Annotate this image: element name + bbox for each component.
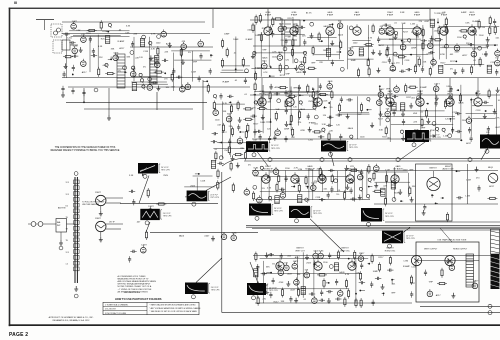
svg-text:33K: 33K (281, 301, 285, 303)
svg-text:20 V P-P: 20 V P-P (163, 213, 171, 215)
svg-text:* PARTS VALUES SHOWN IN SCHEMA: * PARTS VALUES SHOWN IN SCHEMATIC ARE LI… (150, 304, 197, 307)
svg-text:6CB6: 6CB6 (254, 168, 259, 170)
svg-text:.0047: .0047 (424, 21, 430, 23)
svg-text:A217: A217 (379, 44, 385, 47)
svg-text:VHF: VHF (429, 281, 434, 283)
svg-text:12AT7: 12AT7 (148, 205, 153, 208)
svg-text:6CB6: 6CB6 (319, 251, 324, 253)
svg-text:6AG5: 6AG5 (415, 11, 420, 14)
svg-text:7875 CPS: 7875 CPS (163, 216, 172, 218)
svg-text:33K: 33K (267, 101, 271, 103)
svg-text:IF AMP: IF AMP (469, 14, 476, 17)
svg-text:12AU7: 12AU7 (387, 11, 393, 14)
svg-text:12AT7: 12AT7 (95, 191, 102, 194)
svg-text:THE COOPERATION OF THE MANUFAC: THE COOPERATION OF THE MANUFACTURER OF T… (55, 146, 116, 149)
svg-text:6T8: 6T8 (386, 109, 389, 111)
svg-text:33K: 33K (223, 111, 227, 113)
svg-text:A217: A217 (82, 71, 88, 74)
svg-text:C118: C118 (86, 33, 92, 35)
svg-text:22K: 22K (134, 34, 138, 36)
svg-text:6T8: 6T8 (281, 190, 284, 192)
svg-text:C118: C118 (315, 197, 321, 199)
svg-text:470K: 470K (300, 130, 305, 132)
svg-text:7875 CPS: 7875 CPS (406, 238, 415, 240)
svg-text:6AU6: 6AU6 (300, 108, 306, 111)
svg-text:INDIANAPOLIS 6, INDIANA, U.S.A: INDIANAPOLIS 6, INDIANA, U.S.A. 1952 (53, 319, 91, 322)
svg-text:5%: 5% (188, 52, 191, 54)
svg-text:470K: 470K (440, 54, 445, 56)
svg-text:6T8: 6T8 (81, 34, 84, 36)
svg-text:2 B+ BOOST: 2 B+ BOOST (105, 309, 117, 311)
svg-text:250V: 250V (224, 150, 229, 152)
svg-text:PAGE 2: PAGE 2 (9, 332, 28, 338)
svg-text:4.7K: 4.7K (368, 37, 373, 39)
svg-text:5%: 5% (336, 194, 339, 196)
svg-text:VHF: VHF (421, 127, 426, 129)
svg-text:250V: 250V (163, 175, 168, 177)
svg-text:6AL5: 6AL5 (358, 171, 362, 174)
svg-text:C118: C118 (411, 266, 417, 268)
svg-text:3.3K: 3.3K (446, 86, 451, 88)
svg-text:6SN7GT: 6SN7GT (429, 168, 437, 170)
svg-text:.0047: .0047 (495, 127, 500, 129)
svg-text:C118: C118 (480, 27, 486, 29)
svg-text:SEE PAGE GUIDE: SEE PAGE GUIDE (124, 291, 141, 294)
svg-text:20 V P-P: 20 V P-P (210, 194, 218, 196)
svg-text:7875 CPS: 7875 CPS (269, 290, 278, 292)
svg-text:A217: A217 (466, 142, 472, 145)
svg-text:1.5: 1.5 (66, 263, 69, 265)
svg-text:12AT7: 12AT7 (401, 41, 406, 44)
svg-text:IF AMP: IF AMP (441, 14, 448, 17)
svg-text:5%: 5% (450, 69, 453, 71)
svg-text:VHF: VHF (193, 62, 198, 64)
svg-text:6AL5: 6AL5 (131, 68, 135, 71)
svg-text:470K: 470K (279, 282, 284, 284)
svg-text:VHF: VHF (276, 109, 281, 111)
svg-text:RATIO DET: RATIO DET (347, 167, 358, 170)
svg-text:USE THIS DIAGRAM: USE THIS DIAGRAM (82, 203, 100, 206)
svg-text:AN TEN: AN TEN (58, 207, 66, 210)
svg-text:20 V P-P: 20 V P-P (385, 213, 393, 215)
svg-text:SOUND IF: SOUND IF (263, 168, 273, 170)
svg-text:6AU6: 6AU6 (296, 71, 302, 74)
svg-text:6AU6: 6AU6 (328, 11, 333, 14)
svg-text:6AU6: 6AU6 (349, 46, 354, 49)
svg-text:A PRODUCT OF HOWARD W. SAMS &: A PRODUCT OF HOWARD W. SAMS & CO., INC. (49, 316, 94, 319)
svg-text:6T8: 6T8 (380, 26, 383, 28)
svg-text:6AL5: 6AL5 (355, 11, 359, 14)
svg-text:A217: A217 (275, 86, 281, 89)
svg-text:12AT7: 12AT7 (379, 88, 384, 91)
svg-text:3.3K: 3.3K (126, 25, 131, 27)
svg-text:20 V P-P: 20 V P-P (274, 208, 282, 210)
svg-text:10MF: 10MF (351, 60, 357, 62)
svg-text:12AT7: 12AT7 (293, 260, 298, 263)
svg-text:4.7K: 4.7K (151, 34, 156, 36)
svg-text:4.7K: 4.7K (272, 52, 277, 54)
svg-text:C118: C118 (143, 51, 149, 53)
svg-text:250V: 250V (306, 263, 311, 265)
svg-text:HORIZ OSC: HORIZ OSC (385, 250, 396, 252)
svg-text:7875 CPS: 7875 CPS (432, 137, 441, 139)
svg-text:IF AMP: IF AMP (387, 14, 394, 17)
svg-text:12.5: 12.5 (66, 182, 70, 184)
svg-text:6AL5: 6AL5 (300, 61, 304, 64)
svg-text:5%: 5% (143, 66, 146, 68)
svg-text:IF AMP: IF AMP (403, 265, 410, 268)
svg-text:6AL5: 6AL5 (262, 60, 266, 63)
svg-text:12AT7: 12AT7 (359, 252, 364, 255)
svg-text:250V: 250V (190, 186, 195, 188)
svg-text:VERT OSC: VERT OSC (340, 250, 350, 252)
svg-text:SOUND IF: SOUND IF (305, 168, 315, 170)
svg-text:1 TUNER SUB & CHANNEL: 1 TUNER SUB & CHANNEL (105, 304, 128, 307)
svg-text:VHF: VHF (409, 169, 414, 171)
svg-text:A217: A217 (436, 294, 442, 297)
svg-text:R217: R217 (450, 61, 456, 63)
svg-text:7875 CPS: 7875 CPS (274, 211, 283, 213)
svg-text:22K: 22K (413, 121, 417, 123)
svg-text:VHF: VHF (402, 23, 407, 25)
svg-text:1.5M: 1.5M (403, 260, 408, 262)
svg-text:IF AMP: IF AMP (354, 14, 361, 17)
svg-text:6T8: 6T8 (284, 262, 287, 264)
svg-text:.0047: .0047 (290, 289, 296, 291)
svg-text:.0047: .0047 (410, 283, 416, 285)
svg-text:22K: 22K (165, 52, 169, 54)
svg-text:3.3K: 3.3K (465, 23, 470, 25)
svg-text:22K: 22K (329, 131, 333, 133)
svg-text:6T8: 6T8 (495, 58, 498, 60)
svg-text:6AL5: 6AL5 (428, 39, 432, 42)
svg-text:33K: 33K (297, 274, 301, 276)
svg-text:1.5M: 1.5M (191, 71, 196, 73)
svg-text:7875 CPS: 7875 CPS (313, 213, 322, 215)
svg-text:A217: A217 (462, 54, 468, 57)
svg-text:1ST IF: 1ST IF (109, 221, 115, 223)
svg-text:7875 CPS: 7875 CPS (210, 197, 219, 199)
svg-text:20 V P-P: 20 V P-P (313, 210, 321, 212)
svg-text:C118: C118 (452, 112, 458, 114)
svg-text:R217: R217 (222, 132, 228, 134)
svg-text:3.3K: 3.3K (322, 124, 327, 126)
svg-text:6BQ6: 6BQ6 (488, 167, 493, 169)
svg-text:20 V P-P: 20 V P-P (269, 288, 277, 290)
svg-text:3 PHOTOFACT VOLUME: 3 PHOTOFACT VOLUME (105, 312, 127, 315)
svg-text:PIX IF: PIX IF (387, 94, 393, 96)
svg-text:VERT OUTPUT: VERT OUTPUT (424, 248, 438, 250)
svg-text:VHF: VHF (293, 87, 298, 89)
svg-text:4.7K: 4.7K (495, 118, 500, 120)
svg-text:22K: 22K (319, 62, 323, 64)
svg-text:4.7K: 4.7K (267, 188, 272, 190)
svg-text:IF AMP: IF AMP (291, 14, 298, 17)
svg-text:12.5: 12.5 (66, 194, 70, 196)
svg-text:20 V P-P: 20 V P-P (432, 135, 440, 137)
svg-text:22K: 22K (99, 57, 103, 59)
svg-text:A217: A217 (489, 185, 495, 188)
svg-text:4.7K: 4.7K (394, 177, 399, 179)
svg-text:6AL5: 6AL5 (314, 250, 318, 253)
svg-text:4.7K: 4.7K (345, 274, 350, 276)
svg-text:R217: R217 (378, 257, 384, 259)
svg-text:10MF: 10MF (224, 34, 230, 36)
svg-text:6T8: 6T8 (450, 262, 453, 264)
svg-text:12AT7: 12AT7 (95, 217, 102, 220)
svg-text:6T8: 6T8 (338, 20, 341, 22)
svg-text:10MF: 10MF (233, 39, 239, 41)
svg-text:12AT7: 12AT7 (473, 279, 478, 282)
svg-text:PIX IF: PIX IF (315, 94, 321, 96)
svg-text:5%: 5% (118, 71, 121, 73)
svg-text:R217: R217 (274, 301, 280, 303)
svg-text:5%: 5% (262, 188, 265, 190)
svg-text:C118: C118 (323, 101, 329, 103)
svg-text:AND VOLTAGE MEASUREMENTS TAKE: AND VOLTAGE MEASUREMENTS TAKEN (118, 280, 157, 283)
svg-text:6CB6: 6CB6 (73, 45, 78, 47)
svg-text:4.7K: 4.7K (151, 48, 156, 50)
svg-text:5%: 5% (272, 264, 275, 266)
svg-text:4.7K: 4.7K (223, 103, 228, 105)
svg-text:.0047: .0047 (454, 52, 460, 54)
svg-text:IF AMP: IF AMP (255, 66, 262, 69)
svg-text:A CONDENSER 6CR 4 TUBES: A CONDENSER 6CR 4 TUBES (118, 275, 147, 278)
svg-text:8.2: 8.2 (66, 205, 69, 207)
svg-text:C118: C118 (405, 60, 411, 62)
svg-text:HORIZ OUTPUT: HORIZ OUTPUT (453, 248, 468, 250)
svg-text:12AT7: 12AT7 (141, 244, 146, 247)
svg-text:6AU6: 6AU6 (458, 101, 464, 104)
svg-text:22K: 22K (302, 36, 306, 38)
svg-text:IF AMP: IF AMP (222, 81, 229, 84)
svg-text:20 V P-P: 20 V P-P (349, 145, 357, 147)
svg-text:6T8: 6T8 (227, 114, 230, 116)
svg-text:IF AMP: IF AMP (327, 14, 334, 17)
svg-text:PIX IF: PIX IF (475, 94, 481, 96)
svg-text:33K: 33K (266, 266, 270, 268)
svg-text:250V: 250V (403, 170, 408, 172)
svg-text:1.5M: 1.5M (466, 180, 471, 182)
svg-text:33K: 33K (111, 48, 115, 50)
svg-text:A217: A217 (295, 256, 301, 259)
svg-text:6T8: 6T8 (486, 132, 489, 134)
svg-text:12AU7: 12AU7 (265, 165, 272, 168)
svg-text:.0047: .0047 (287, 274, 293, 276)
svg-text:6AU6: 6AU6 (278, 51, 283, 54)
svg-text:10MF: 10MF (411, 47, 417, 49)
svg-text:IF AMP: IF AMP (414, 14, 421, 17)
svg-text:6AL5: 6AL5 (391, 62, 395, 65)
svg-text:12AT7: 12AT7 (434, 82, 439, 85)
svg-text:1.5M: 1.5M (298, 169, 303, 171)
svg-text:6AU6: 6AU6 (262, 56, 268, 59)
svg-text:5%: 5% (330, 107, 333, 109)
svg-text:10MF: 10MF (284, 128, 290, 130)
svg-text:PIX IF: PIX IF (447, 94, 453, 96)
svg-text:22K: 22K (240, 148, 244, 150)
svg-text:3.3K: 3.3K (125, 32, 130, 34)
svg-text:AT 4%: AT 4% (306, 12, 312, 15)
svg-text:C118: C118 (476, 110, 482, 112)
svg-text:NOTES TURNED ON ANY OUT OF A: NOTES TURNED ON ANY OUT OF A (118, 285, 152, 288)
svg-text:VHF: VHF (262, 50, 267, 52)
svg-text:7875 CPS: 7875 CPS (271, 148, 280, 150)
svg-text:6AU6: 6AU6 (307, 165, 313, 168)
svg-text:VHF: VHF (391, 292, 396, 294)
svg-text:R217: R217 (288, 18, 294, 20)
svg-text:R217: R217 (403, 31, 409, 33)
svg-text:7875 CPS: 7875 CPS (211, 289, 220, 291)
svg-text:IF AMP: IF AMP (118, 40, 125, 43)
svg-text:6AU6: 6AU6 (348, 127, 354, 130)
svg-text:HOW TO USE PHOTOFACT FOLDERS: HOW TO USE PHOTOFACT FOLDERS (115, 297, 162, 301)
svg-text:.0047: .0047 (204, 235, 210, 237)
svg-text:A217: A217 (119, 47, 125, 50)
svg-text:6CB6: 6CB6 (232, 232, 237, 234)
svg-text:ION TRAP DEFLECTION YOKE: ION TRAP DEFLECTION YOKE (438, 239, 467, 242)
svg-text:5%: 5% (248, 164, 251, 166)
svg-text:VHF: VHF (286, 73, 291, 75)
svg-text:6CB6: 6CB6 (472, 49, 477, 51)
svg-text:PIX IF: PIX IF (417, 94, 423, 96)
svg-text:1.5M: 1.5M (443, 136, 448, 138)
svg-text:AUDIO OUT: AUDIO OUT (442, 167, 454, 170)
svg-text:VHF: VHF (311, 62, 316, 64)
svg-text:12AT7: 12AT7 (311, 181, 316, 184)
svg-text:PIX IF: PIX IF (287, 94, 293, 96)
svg-text:3.3K: 3.3K (129, 175, 134, 177)
svg-text:VERT OUT: VERT OUT (295, 250, 305, 252)
svg-text:33K: 33K (126, 57, 130, 59)
svg-text:C118: C118 (382, 62, 388, 64)
svg-text:20 V P-P: 20 V P-P (406, 236, 414, 238)
svg-text:* SEE INDEX OF SET NO. FOR LIS: * SEE INDEX OF SET NO. FOR LISTING OF EA… (150, 310, 198, 313)
svg-text:22K: 22K (423, 62, 427, 64)
svg-text:12.5: 12.5 (66, 252, 70, 254)
svg-text:.0047: .0047 (426, 54, 432, 56)
svg-text:RECEIVER MAKES IT POSSIBLE TO: RECEIVER MAKES IT POSSIBLE TO BRING YOU … (51, 149, 120, 152)
svg-text:3.3K: 3.3K (76, 30, 81, 32)
svg-text:7875 CPS: 7875 CPS (349, 147, 358, 149)
svg-text:3.3K: 3.3K (98, 46, 103, 48)
svg-text:12AT7: 12AT7 (72, 20, 77, 23)
svg-text:1.5M: 1.5M (465, 195, 470, 197)
svg-text:6AU6: 6AU6 (179, 235, 185, 238)
svg-text:1.5M: 1.5M (410, 23, 415, 25)
svg-text:C118: C118 (200, 180, 206, 182)
svg-text:6AU6: 6AU6 (279, 23, 284, 26)
svg-text:10MF: 10MF (373, 271, 379, 273)
svg-text:R217: R217 (389, 39, 395, 41)
svg-text:R217: R217 (253, 123, 259, 125)
svg-text:6 AMP: 6 AMP (461, 11, 467, 14)
svg-text:VHF: VHF (413, 113, 418, 115)
svg-text:IF AMP: IF AMP (246, 38, 253, 41)
svg-text:250V: 250V (394, 193, 399, 195)
svg-text:6T8: 6T8 (182, 41, 185, 43)
svg-text:PIX IF: PIX IF (259, 94, 265, 96)
svg-text:6AU6: 6AU6 (328, 80, 333, 83)
svg-text:7875 CPS: 7875 CPS (161, 169, 170, 171)
svg-text:22K: 22K (291, 137, 295, 139)
svg-text:1.5M: 1.5M (385, 170, 390, 172)
svg-text:* ANY VOLTAGE VARIATIONS OF PA: * ANY VOLTAGE VARIATIONS OF PARTS & WIRI… (150, 307, 202, 310)
svg-text:6AU6: 6AU6 (338, 34, 344, 37)
svg-text:3.3K: 3.3K (379, 130, 384, 132)
svg-text:7875 CPS: 7875 CPS (385, 216, 394, 218)
svg-text:R217: R217 (441, 62, 447, 64)
svg-text:1ST AUDIO: 1ST AUDIO (393, 167, 404, 170)
svg-text:IF AMP: IF AMP (265, 14, 272, 17)
svg-text:4.7K: 4.7K (263, 72, 268, 74)
svg-text:R217: R217 (378, 118, 384, 120)
svg-text:A217: A217 (166, 43, 172, 46)
svg-text:6T8: 6T8 (305, 270, 308, 272)
svg-text:250V: 250V (479, 35, 484, 37)
svg-text:10MF: 10MF (260, 122, 266, 124)
svg-text:6AU6: 6AU6 (324, 25, 330, 28)
svg-text:IF AMP: IF AMP (420, 86, 427, 89)
svg-text:.0047: .0047 (434, 31, 440, 33)
